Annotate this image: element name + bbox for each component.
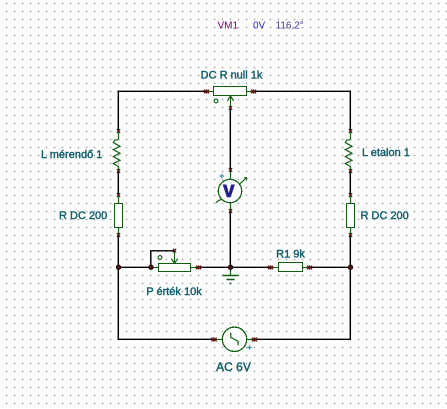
svg-text:P érték 10k: P érték 10k xyxy=(146,286,202,298)
svg-text:R DC 200: R DC 200 xyxy=(361,210,409,222)
svg-text:R DC 200: R DC 200 xyxy=(59,210,107,222)
svg-text:AC 6V: AC 6V xyxy=(216,360,251,374)
svg-text:L etalon 1: L etalon 1 xyxy=(362,147,410,159)
svg-text:116,2°: 116,2° xyxy=(276,21,304,32)
svg-text:DC R null 1k: DC R null 1k xyxy=(201,70,263,82)
svg-text:0V: 0V xyxy=(253,21,266,32)
svg-text:L mérendő 1: L mérendő 1 xyxy=(41,149,102,161)
svg-text:VM1: VM1 xyxy=(218,21,239,32)
svg-text:R1 9k: R1 9k xyxy=(276,248,305,260)
